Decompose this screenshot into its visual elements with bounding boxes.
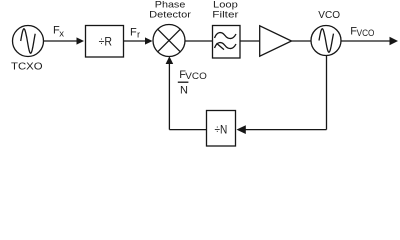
- loop filter upper sine: [215, 33, 237, 39]
- oscillator VCO circle: [311, 26, 341, 56]
- wire loop filter to amplifier: [240, 40, 260, 42]
- amplifier A1 triangle: [260, 26, 292, 56]
- wire amplifier to VCO: [292, 40, 312, 42]
- svg-text:÷R: ÷R: [99, 35, 112, 48]
- svg-text:TCXO: TCXO: [11, 60, 43, 72]
- VCO sine waveform: [319, 29, 334, 52]
- phase detector X: [158, 29, 181, 52]
- fraction bar of FVCO over N: [178, 81, 189, 83]
- svg-text:Filter: Filter: [212, 9, 238, 20]
- feedback wire bottom horizontal: [245, 129, 327, 131]
- arrowhead into phase detector: [145, 37, 153, 44]
- wire divider N to feedback riser: [169, 129, 206, 131]
- svg-text:x: x: [59, 28, 64, 39]
- TCXO sine waveform: [21, 29, 36, 53]
- phase detector U1 circle: [153, 25, 185, 57]
- svg-text:÷N: ÷N: [215, 124, 228, 137]
- output wire FVCO: [341, 40, 390, 42]
- feedback riser wire up to phase detector: [168, 63, 170, 130]
- svg-text:r: r: [137, 30, 140, 41]
- loop filter cross stroke: [217, 43, 225, 49]
- feedback wire VCO down: [326, 55, 328, 129]
- wire TCXO to divider R: [44, 40, 79, 42]
- svg-text:VCO: VCO: [357, 28, 375, 39]
- wire divider R to phase detector: [124, 40, 147, 42]
- svg-text:N: N: [180, 85, 188, 97]
- svg-text:VCO: VCO: [185, 71, 207, 82]
- arrowhead into divider N: [237, 125, 246, 134]
- svg-text:VCO: VCO: [318, 9, 340, 21]
- svg-text:Detector: Detector: [149, 9, 191, 20]
- divider box N: [207, 111, 236, 147]
- divider box R: [86, 26, 124, 58]
- arrowhead into divider R: [77, 37, 85, 44]
- svg-text:F: F: [130, 27, 137, 39]
- loop filter box: [213, 26, 241, 59]
- wire phase detector to loop filter: [185, 40, 213, 42]
- loop filter lower sine: [215, 43, 237, 49]
- output arrowhead: [390, 37, 399, 45]
- oscillator TCXO: [13, 26, 44, 57]
- arrowhead into phase detector bottom: [166, 56, 174, 64]
